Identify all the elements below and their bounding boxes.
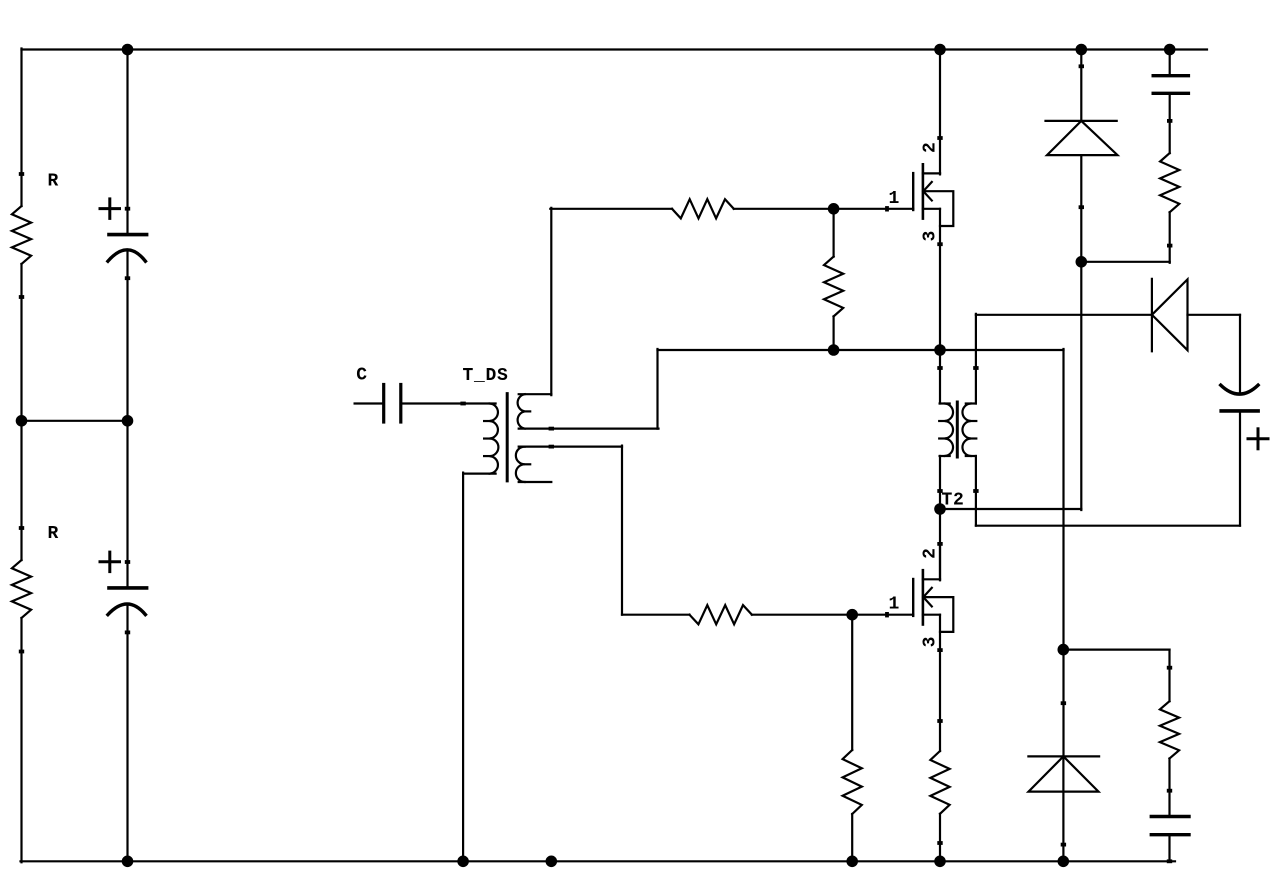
pin dot T_DS secA bottom — [549, 427, 554, 431]
capacitor C plates — [382, 385, 385, 423]
resistor R2 zigzag — [12, 560, 31, 618]
svg-text:1: 1 — [889, 189, 901, 209]
wire T_DS secA top terminal — [519, 393, 552, 395]
MOSFET Q2 gate bar — [912, 579, 914, 616]
wire T2 right bottom stub — [966, 455, 976, 457]
wire Q1 source down — [939, 209, 941, 351]
wire secA corner riser — [656, 349, 658, 429]
pin dot T_DS primary top — [460, 402, 465, 406]
pin dots R1 — [19, 172, 24, 176]
transformer T2 right winding — [962, 404, 970, 457]
junction dot gate2 — [846, 609, 858, 621]
wire T_DS primary to GND — [462, 473, 464, 862]
svg-text:R: R — [48, 524, 60, 544]
T_DS secondary B cusp ticks — [525, 463, 531, 465]
wire diode run right — [1188, 314, 1241, 316]
resistor Rg1 zigzag — [672, 199, 734, 218]
wire snubber1 top — [1169, 50, 1171, 76]
resistor Rpd2 wire top — [851, 615, 853, 750]
wire D1 top — [1080, 50, 1082, 121]
resistor Rpd1 zigzag — [824, 257, 843, 317]
wire T2 node to diode node — [940, 508, 1081, 510]
wire T_DS secA bottom terminal — [519, 428, 659, 430]
diode D1 cathode bar — [1046, 120, 1117, 122]
pin dot D1 top — [1079, 64, 1084, 68]
MOSFET Q2 source stub — [923, 614, 940, 616]
svg-text:C: C — [356, 366, 368, 386]
resistor Rpd2 zigzag — [843, 750, 862, 814]
MOSFET Q1 drain stub — [923, 172, 940, 174]
pin dot Csn1 bottom — [1167, 119, 1172, 123]
pin dots R2 — [19, 526, 24, 530]
MOSFET Q1 source stub — [923, 208, 940, 210]
transformer T_DS secondary B winding — [516, 447, 525, 482]
MOSFET Q1 bulk stub and loop — [924, 191, 954, 226]
wire T2 left pin down to Q2 — [939, 456, 941, 580]
wire T_DS primary bottom terminal — [463, 473, 496, 475]
wire T2 left top stub — [940, 402, 950, 404]
svg-text:3: 3 — [920, 636, 940, 648]
svg-text:3: 3 — [920, 230, 940, 242]
svg-text:R: R — [48, 172, 60, 192]
wire left column bottom — [20, 618, 22, 862]
wire C to T_DS — [402, 402, 496, 404]
wire Rq2 bottom — [939, 814, 941, 862]
pin dot T2 left top — [937, 366, 942, 370]
wire output cap top — [1239, 315, 1241, 392]
wire C left stub — [355, 402, 383, 404]
pin dots C4 — [125, 560, 130, 564]
pin dot Rsn2 top — [1167, 666, 1172, 670]
MOSFET Q2 arrow — [923, 588, 932, 597]
wire snubber1 bottom — [1169, 212, 1171, 263]
wire snubber2 link — [1063, 648, 1169, 650]
wire gate2 run right — [752, 614, 913, 616]
wire top rail (+BUS) — [22, 48, 1208, 50]
diode D3 cathode bar — [1151, 279, 1153, 351]
pin dot T2 right top — [973, 366, 978, 370]
wire T2 right pin up — [975, 314, 977, 404]
capacitor Cout plus sign — [1248, 437, 1268, 440]
wire bottom rail (GND) — [21, 860, 1176, 862]
wire gate1 run right — [734, 208, 913, 210]
wire Q2 drain stub riser — [939, 544, 941, 580]
wire gate2 run left — [622, 614, 690, 616]
wire switch node drop — [1062, 349, 1064, 756]
pin dot Rsn1 bottom — [1167, 244, 1172, 248]
MOSFET Q2 drain stub — [923, 578, 940, 580]
pin dot D1 bottom — [1079, 205, 1084, 209]
T2 right cusp ticks — [971, 420, 977, 422]
MOSFET Q1 gate bar — [912, 173, 914, 210]
transformer T2 core — [956, 402, 959, 457]
svg-text:2: 2 — [920, 141, 940, 153]
wire secA up to gate run — [550, 208, 552, 395]
junction dots bottom rail — [457, 856, 469, 868]
junction dots top rail right — [934, 44, 946, 56]
resistor Rg2 zigzag — [690, 605, 752, 624]
junction dot D2 node — [1058, 644, 1070, 656]
pin dot T2 left bottom — [937, 489, 942, 493]
capacitor Cout arc plate — [1221, 385, 1258, 394]
diode D3 triangle — [1152, 279, 1188, 350]
wire gate1 run left — [550, 208, 672, 210]
T_DS secondary A cusp ticks — [525, 410, 531, 412]
resistor R1 zigzag — [12, 206, 31, 264]
wire mid rail — [22, 420, 128, 422]
transformer T_DS core — [506, 394, 509, 481]
svg-text:1: 1 — [889, 595, 901, 615]
MOSFET Q2 pin dots — [885, 612, 889, 617]
wire switch node run — [658, 349, 1064, 351]
wire cap column upper — [126, 50, 128, 234]
diode D2 triangle — [1029, 756, 1099, 791]
wire left column middle — [20, 264, 22, 560]
MOSFET Q1 arrow — [923, 182, 932, 191]
svg-text:T_DS: T_DS — [463, 366, 509, 386]
MOSFET Q2 channel bar — [922, 570, 925, 624]
wire snubber2 top — [1168, 650, 1170, 702]
resistor Rsn1 zigzag — [1160, 153, 1179, 212]
wire left column top — [20, 49, 22, 207]
pin dot Rsn2 bottom — [1167, 789, 1172, 793]
wire secB down — [621, 446, 623, 615]
wire T_DS secB top terminal — [519, 446, 622, 448]
capacitor C4 plus sign — [100, 560, 120, 563]
MOSFET Q1 pin dots — [885, 206, 889, 211]
wire snubber1 mid — [1169, 93, 1171, 153]
pin dot D2 top — [1061, 701, 1066, 705]
pin dot T_DS secB top — [549, 445, 554, 449]
wire T2 left bottom stub — [940, 455, 950, 457]
junction dot D1 node — [1076, 256, 1088, 268]
transformer T2 left winding — [945, 404, 953, 457]
wire cap column mid — [126, 250, 128, 587]
resistor Rpd1 wire top — [832, 209, 834, 257]
svg-text:2: 2 — [920, 547, 940, 559]
wire snubber2 bottom — [1168, 835, 1170, 862]
wire T2 right pin down — [975, 456, 977, 526]
wire Q1 drain — [939, 50, 941, 174]
capacitor Cout plate — [1221, 409, 1258, 413]
resistor Rpd2 wire bottom — [851, 814, 853, 861]
capacitor C1 arc plate — [108, 250, 145, 261]
capacitor C4 arc plate — [108, 604, 145, 615]
wire Q1 drain stub riser — [939, 173, 941, 174]
resistor Rsn2 zigzag — [1160, 701, 1179, 758]
T_DS primary cusp ticks — [484, 420, 490, 422]
wire D2 bottom — [1062, 756, 1064, 861]
wire diode run left — [976, 314, 1152, 316]
capacitor C1 plus sign — [100, 207, 120, 210]
transformer T_DS secondary A winding — [518, 394, 525, 428]
pin dot T2 right bottom — [973, 489, 978, 493]
wire cap column lower — [126, 604, 128, 861]
MOSFET Q1 channel bar — [922, 164, 925, 218]
wire T2 right top stub — [966, 402, 976, 404]
pin dots C1 — [125, 207, 130, 211]
junction dots left section — [122, 44, 134, 56]
wire Q2 source down — [939, 615, 941, 751]
wire output cap bottom — [1239, 411, 1241, 526]
pin dot snubber2 gnd — [1167, 859, 1172, 863]
capacitor Csn1 plates — [1153, 74, 1188, 77]
wire T_DS secB bottom terminal — [519, 481, 552, 483]
diode D2 cathode bar — [1028, 755, 1099, 757]
capacitor Csn2 plates — [1151, 815, 1189, 818]
junction dot T2 node — [934, 503, 946, 515]
T2 left cusp ticks — [939, 420, 945, 422]
capacitor C4 plate — [109, 586, 147, 590]
resistor Rpd1 wire bottom — [832, 316, 834, 350]
wire output bottom run — [976, 525, 1240, 527]
capacitor C1 plate — [109, 233, 147, 237]
wire T2 left pin up — [939, 349, 941, 404]
MOSFET Q2 bulk stub and loop — [924, 597, 954, 632]
wire snubber1 link — [1081, 261, 1169, 263]
resistor Rq2 zigzag — [930, 751, 949, 814]
junction dots gate1 — [828, 203, 840, 215]
wire D1 bottom — [1080, 155, 1082, 510]
transformer T_DS primary winding — [490, 404, 499, 474]
diode D1 triangle — [1047, 121, 1118, 155]
pin dot D2 bottom — [1061, 843, 1066, 847]
pin dots Rq2 — [937, 719, 942, 723]
wire snubber2 mid — [1168, 759, 1170, 817]
